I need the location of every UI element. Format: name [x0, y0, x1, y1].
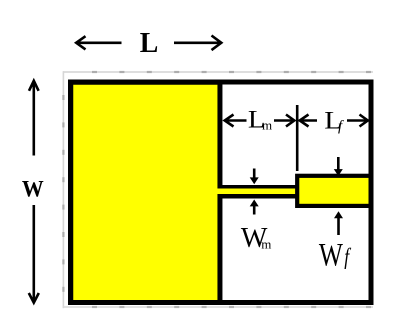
dimension Wm down arrow	[250, 169, 259, 185]
narrow strip top edge line	[222, 185, 298, 189]
substrate outer border	[71, 82, 372, 303]
dimension Lf left arrow	[300, 115, 317, 127]
faint canvas guide line top	[63, 71, 373, 73]
dimension Lm left arrow	[225, 115, 247, 127]
feed strip yellow band (narrow microstrip through patch border)	[214, 189, 300, 195]
narrow strip bottom edge line	[222, 194, 298, 199]
dimension W down arrow	[29, 205, 39, 303]
svg-text:W: W	[319, 238, 343, 274]
dimension L right arrow	[174, 36, 221, 51]
dimension Lf right arrow	[347, 115, 368, 127]
faint canvas guide line bottom	[63, 306, 373, 308]
patch (yellow radiating patch with black border)	[71, 82, 220, 302]
dimension Wf down arrow	[334, 157, 343, 176]
svg-text:L: L	[140, 28, 159, 60]
faint canvas guide line left	[62, 71, 64, 308]
svg-text:m: m	[262, 117, 272, 132]
dimension L left arrow	[76, 36, 121, 49]
dimension W up arrow	[29, 81, 39, 156]
dimension Wf up arrow	[334, 211, 343, 235]
svg-text:m: m	[261, 236, 271, 251]
feed line (wide microstrip, yellow with black border)	[297, 176, 371, 206]
substrate ground plane (outer rectangle fill)	[71, 82, 372, 303]
dimension Lm right arrow	[274, 115, 294, 127]
separator line between Lm and Lf	[296, 105, 299, 171]
svg-text:W: W	[22, 176, 44, 202]
dimension Wm up arrow	[250, 200, 259, 215]
